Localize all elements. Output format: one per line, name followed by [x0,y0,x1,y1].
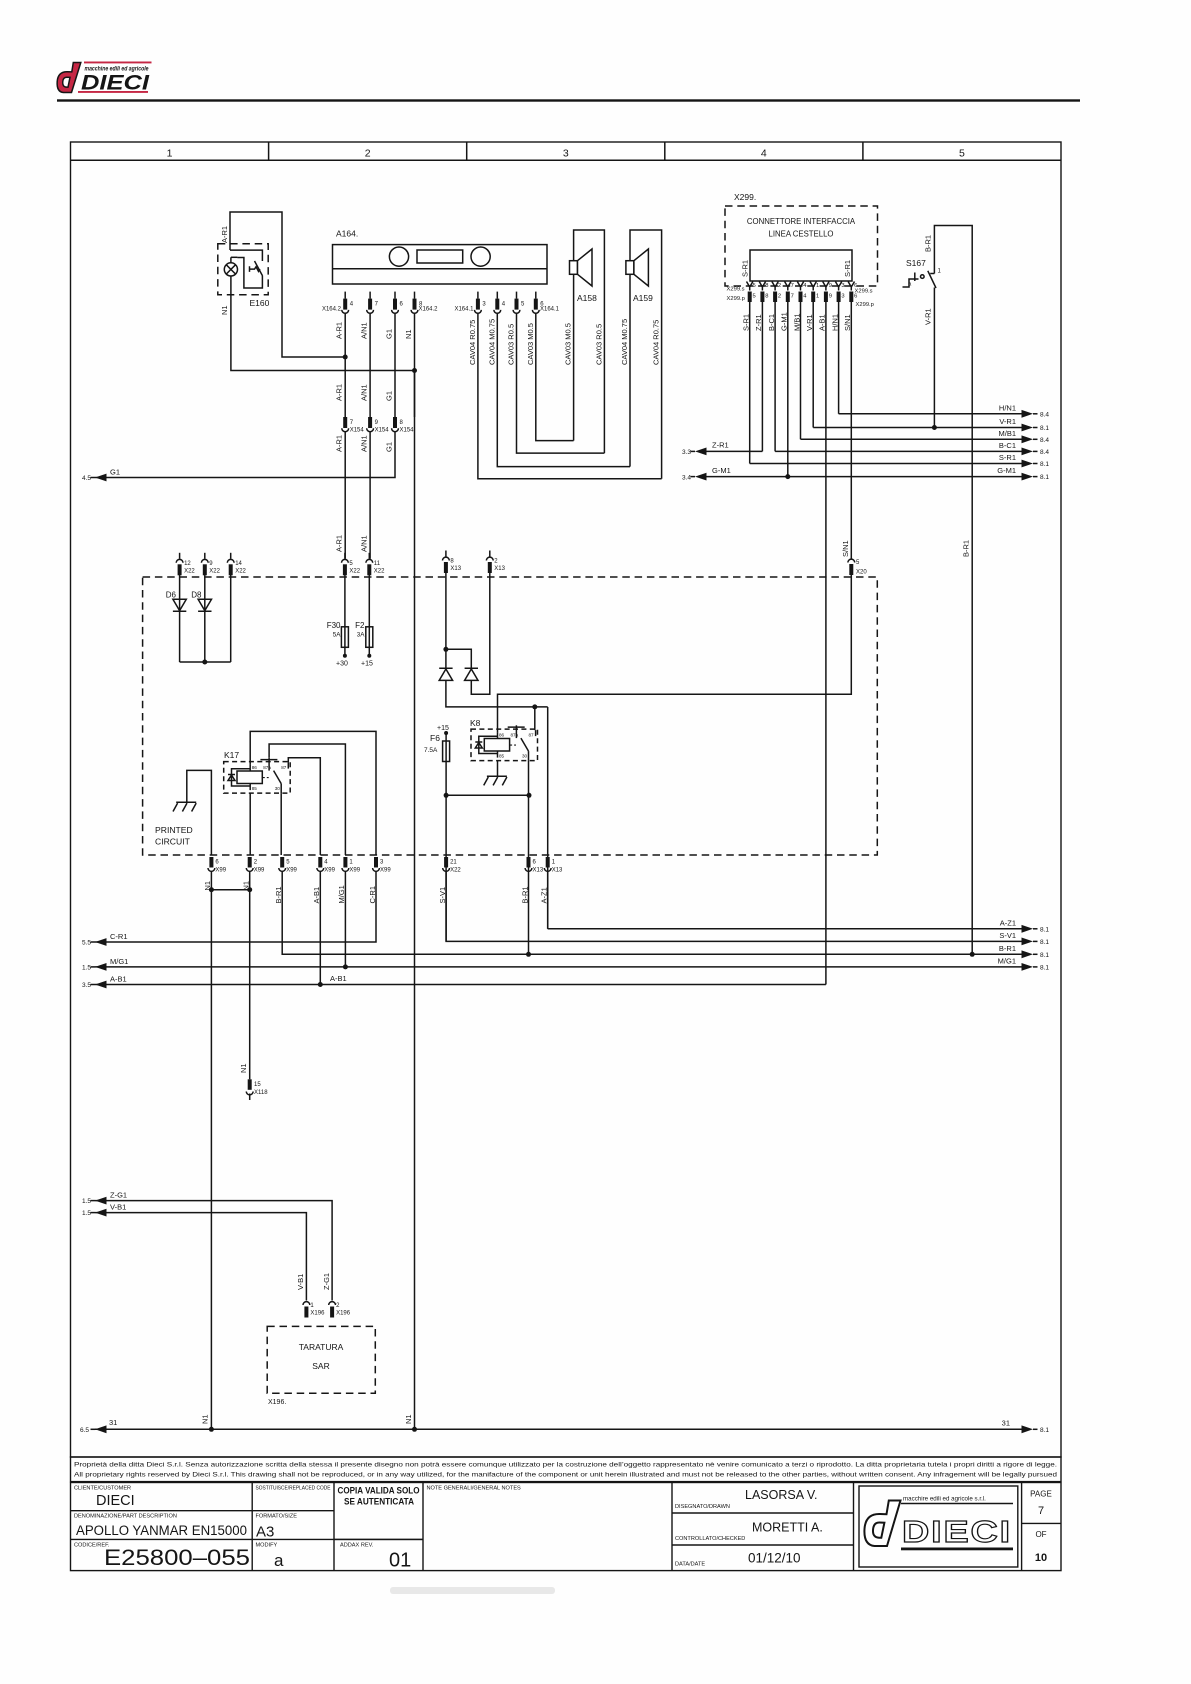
svg-text:S-R1: S-R1 [999,453,1016,462]
connector X99 pin 3 [374,857,378,868]
wire S-R1 row [750,463,1022,465]
svg-text:1: 1 [167,148,173,160]
svg-text:SOSTITUISCE/REPLACED CODE: SOSTITUISCE/REPLACED CODE [256,1486,331,1492]
svg-text:S-V1: S-V1 [999,931,1016,940]
svg-text:APOLLO YANMAR EN15000: APOLLO YANMAR EN15000 [76,1523,247,1538]
svg-text:2: 2 [778,283,781,289]
svg-text:X196.: X196. [268,1399,286,1406]
column header row [71,159,1062,161]
svg-text:a: a [909,282,912,288]
svg-text:Proprietà della ditta Dieci S.: Proprietà della ditta Dieci S.r.l. Senza… [74,1462,1057,1469]
wire B-R1 K8 30 down [528,761,530,955]
svg-text:V-R1: V-R1 [999,417,1016,426]
connector X299.p pin 4 [799,292,803,303]
svg-text:CLIENTE/CUSTOMER: CLIENTE/CUSTOMER [74,1486,131,1492]
svg-text:8.1: 8.1 [1040,474,1049,481]
svg-text:S-R1: S-R1 [741,260,750,277]
svg-text:A-R1: A-R1 [335,435,344,452]
svg-text:A159: A159 [633,293,653,303]
svg-text:V-B1: V-B1 [296,1274,305,1290]
svg-text:15: 15 [254,1082,261,1088]
svg-text:30: 30 [275,786,281,791]
svg-text:X154: X154 [375,428,390,434]
svg-text:LASORSA V.: LASORSA V. [745,1488,818,1502]
wire H/N1 row [839,413,1022,415]
connector X99 pin 6 [209,857,213,868]
svg-text:Z-R1: Z-R1 [712,441,729,450]
svg-text:9: 9 [829,283,832,289]
wire N1 from E160 [231,276,415,371]
wire S/N1 to K8 coil [498,574,852,733]
wire pin14 and join rail [230,573,232,662]
connector X22 pin 14 [230,553,232,559]
wire H/N1 from X299.p [838,302,840,414]
wires below X99 [210,872,212,1430]
svg-text:CONTROLLATO/CHECKED: CONTROLLATO/CHECKED [675,1536,745,1542]
svg-text:X22: X22 [450,868,461,874]
wire F6 to B-R1 [446,794,529,796]
svg-text:5: 5 [753,294,756,300]
svg-text:X154: X154 [350,428,365,434]
svg-text:CAV03 M0.5: CAV03 M0.5 [564,323,573,365]
svg-text:8.1: 8.1 [1040,461,1049,468]
svg-text:MORETTI A.: MORETTI A. [752,1521,823,1535]
connector X299.s socket 1 [810,282,816,291]
svg-text:CIRCUIT: CIRCUIT [155,837,191,847]
svg-text:31: 31 [1002,1419,1010,1428]
svg-text:Z-G1: Z-G1 [110,1191,127,1200]
connector X22 pin 9 [204,553,206,559]
svg-text:3A: 3A [357,632,366,639]
svg-text:X99: X99 [349,868,360,874]
svg-text:A164.: A164. [336,229,358,239]
svg-text:3: 3 [841,294,844,300]
connector X299.p pin 6 [849,292,853,303]
svg-text:3.3: 3.3 [682,449,691,456]
svg-text:X164.2: X164.2 [419,307,439,313]
wire N1 long vertical [414,371,416,1430]
svg-text:7.5A: 7.5A [424,747,438,754]
svg-text:D8: D8 [191,591,202,600]
svg-text:4: 4 [761,148,767,160]
connector X13 pin 6 [527,857,531,868]
svg-text:5.5: 5.5 [82,940,91,947]
connector X164.1 pin 6 [532,292,539,314]
svg-text:COPIA VALIDA SOLO: COPIA VALIDA SOLO [338,1486,420,1496]
svg-text:H/N1: H/N1 [999,403,1016,412]
svg-text:14: 14 [235,561,242,567]
connector X99 pin 5 [280,857,284,868]
svg-text:X22: X22 [235,568,246,574]
svg-text:K8: K8 [470,718,481,728]
wire G1 to left frame entry [95,432,395,478]
svg-text:8.1: 8.1 [1040,939,1049,946]
svg-text:A/N1: A/N1 [359,535,368,552]
svg-text:86: 86 [499,732,505,737]
svg-text:F2: F2 [355,621,365,630]
svg-text:85: 85 [252,786,258,791]
svg-text:K17: K17 [224,750,239,760]
wire Z-G1 [95,1201,332,1301]
switch inside E160 [230,250,262,261]
svg-text:G-M1: G-M1 [997,466,1016,475]
svg-text:9: 9 [829,294,832,300]
svg-text:X13: X13 [533,868,544,874]
lamp symbol E160 [224,263,237,276]
svg-text:CAV04 M0.75: CAV04 M0.75 [620,319,629,365]
connector X13 pin 2 [489,551,491,557]
svg-text:N1: N1 [239,1063,248,1073]
svg-text:X22: X22 [349,568,360,574]
svg-text:3.4: 3.4 [682,475,691,482]
svg-text:31: 31 [109,1418,117,1427]
svg-text:TARATURA: TARATURA [299,1342,344,1352]
svg-text:B-R1: B-R1 [924,235,933,252]
svg-text:10: 10 [1035,1552,1047,1564]
svg-text:M/B1: M/B1 [998,429,1016,438]
svg-text:21: 21 [450,860,457,866]
wire V-R1 from X299.p [812,302,814,428]
svg-text:+15: +15 [437,725,449,732]
svg-text:FORMATO/SIZE: FORMATO/SIZE [256,1514,298,1520]
svg-text:8.4: 8.4 [1040,437,1049,444]
wire diode2 to pin 2 X13 [471,571,490,695]
svg-text:1.5: 1.5 [82,1198,91,1205]
svg-text:X22: X22 [374,568,385,574]
wire diode1 bottom to K8 87 and A-Z1 drop [446,680,548,707]
svg-text:F6: F6 [430,733,440,743]
connector X99 pin 4 [318,857,322,868]
svg-text:A-R1: A-R1 [220,226,229,243]
svg-text:NOTE GENERALI/GENERAL NOTES: NOTE GENERALI/GENERAL NOTES [427,1486,522,1492]
wires below X154 [344,432,346,559]
svg-text:E160: E160 [250,298,270,308]
svg-text:A-R1: A-R1 [335,384,344,401]
connector X13 pin 1 [546,857,550,868]
svg-text:SE AUTENTICATA: SE AUTENTICATA [344,1497,414,1507]
svg-text:G1: G1 [384,442,393,452]
top rule [57,99,1080,101]
svg-text:X20: X20 [856,570,867,576]
svg-text:X99: X99 [286,868,297,874]
svg-text:X13: X13 [450,566,461,572]
ground in printed circuit [187,770,212,855]
connector X164.1 pin 5 [513,292,520,314]
connector X196 pins 1,2 [303,1302,310,1305]
svg-text:A/N1: A/N1 [359,435,368,452]
svg-text:G1: G1 [110,468,120,477]
svg-text:+30: +30 [336,661,348,668]
svg-text:S167: S167 [906,258,926,268]
connector X299.p pin 1 [811,292,815,303]
connector X299.s socket 3 [835,282,841,291]
svg-text:PAGE: PAGE [1030,1490,1052,1499]
svg-text:macchire edili ed agricole: macchire edili ed agricole s.r.l. [903,1496,986,1503]
svg-text:All proprietary rights reserve: All proprietary rights reserved by Dieci… [74,1472,1057,1479]
svg-text:DIECI: DIECI [81,72,150,95]
connector X299.p pin 7 [786,292,790,303]
svg-text:DENOMINAZIONE/PART DESCRIPTIO: DENOMINAZIONE/PART DESCRIPTION [74,1514,177,1520]
speaker A159 [630,230,662,479]
svg-text:S-R1: S-R1 [843,260,852,277]
svg-text:X22: X22 [209,568,220,574]
copyright strip [71,1457,1062,1482]
svg-text:N1: N1 [404,1414,413,1424]
svg-text:B-R1: B-R1 [962,540,971,557]
svg-text:DATA/DATE: DATA/DATE [675,1562,705,1568]
svg-text:3.5: 3.5 [82,982,91,989]
svg-text:8.1: 8.1 [1040,926,1049,933]
svg-text:3: 3 [841,283,844,289]
svg-text:DIECI: DIECI [96,1493,135,1509]
svg-text:CAV04 M0.75: CAV04 M0.75 [487,319,496,365]
connector X299.s socket 2 [772,282,778,291]
svg-text:A-Z1: A-Z1 [1000,918,1016,927]
svg-text:5: 5 [753,283,756,289]
svg-text:V-R1: V-R1 [924,308,933,325]
wire CAV03 M0.5 speaker feed [536,314,574,441]
svg-text:+15: +15 [361,661,373,668]
wire M/G1 row [95,966,1022,968]
connector X299.s socket 5 [747,282,753,291]
svg-text:MODIFY: MODIFY [256,1543,278,1549]
svg-text:E25800–055: E25800–055 [104,1545,250,1570]
connector X299.p pin 3 [837,292,841,303]
svg-text:CAV03 R0.5: CAV03 R0.5 [594,324,603,365]
connector X299.s socket 8 [759,282,765,291]
speaker A158 [574,230,605,453]
svg-text:CAV04 R0.75: CAV04 R0.75 [468,320,477,365]
svg-text:01: 01 [389,1550,411,1572]
svg-text:DIECI: DIECI [902,1514,1012,1549]
K17 wiring to X99 [250,731,376,855]
svg-text:V-B1: V-B1 [110,1203,126,1212]
svg-text:A158: A158 [577,293,597,303]
connector X13 pin 8 [445,551,447,557]
svg-text:7: 7 [1038,1505,1044,1517]
wire V-R1 row [813,427,1022,429]
svg-text:CAV03 R0.5: CAV03 R0.5 [507,324,516,365]
connector X299.p pin 8 [760,292,764,303]
svg-text:11: 11 [374,561,381,567]
connector X299.p pin 9 [824,292,828,303]
svg-text:2: 2 [778,294,781,300]
wire CAV03 R0.5 speaker feed [517,314,605,454]
svg-text:Z-G1: Z-G1 [322,1273,331,1290]
svg-text:2: 2 [365,148,371,160]
DIECI logo in title block [859,1486,1018,1567]
svg-text:01/12/10: 01/12/10 [748,1551,801,1566]
svg-text:A/N1: A/N1 [359,384,368,401]
svg-text:8.4: 8.4 [1040,411,1049,418]
connector X164.1 pin 3 [475,292,482,314]
svg-text:87a: 87a [511,732,519,737]
svg-text:3: 3 [563,148,569,160]
drawing frame [71,142,1062,1457]
wire 31/N1 bottom rail [95,1428,1022,1430]
svg-text:A-B1: A-B1 [110,975,127,984]
svg-text:M/G1: M/G1 [998,956,1016,965]
box TARATURA SAR [267,1326,375,1393]
svg-text:C-R1: C-R1 [110,932,128,941]
connector X99 pin 1 [343,857,347,868]
svg-text:X164.1: X164.1 [454,307,474,313]
svg-text:8: 8 [765,294,768,300]
connector X22 pin 21 [444,857,448,868]
svg-text:1.5: 1.5 [82,1210,91,1217]
wires A-R1 A/N1 G1 N1 below X164.2 [344,314,346,418]
svg-text:30: 30 [522,753,528,758]
svg-text:N1: N1 [201,1414,210,1424]
svg-text:DISEGNATO/DRAWN: DISEGNATO/DRAWN [675,1504,730,1510]
svg-text:ADDAX REV.: ADDAX REV. [340,1543,374,1549]
svg-text:X299.s: X299.s [727,287,745,293]
svg-text:8.1: 8.1 [1040,964,1049,971]
svg-text:X99: X99 [324,868,335,874]
svg-text:A-R1: A-R1 [335,535,344,552]
svg-text:a: a [274,1551,284,1570]
svg-text:X118: X118 [254,1090,268,1096]
wire M/B1 row [801,438,1023,440]
svg-text:M/G1: M/G1 [110,957,128,966]
svg-text:X13: X13 [552,868,563,874]
wire CAV04 R0.75 speaker feed [478,314,662,479]
svg-text:X99: X99 [254,868,265,874]
connector X164.1 pin 4 [494,292,501,314]
svg-text:1: 1 [816,294,819,300]
svg-text:B-C1: B-C1 [999,441,1016,450]
svg-text:OF: OF [1035,1530,1046,1539]
connector X22 pin 12 [179,553,181,559]
wire A-R1 E160 loop [230,212,345,357]
K8 ground [497,761,499,777]
svg-text:5A: 5A [333,632,342,639]
wire B-C1 row [775,450,1022,452]
wire V-B1 [95,1213,306,1301]
wire B-C1 from X299.p [774,302,776,451]
svg-text:SAR: SAR [312,1361,329,1371]
connector X22 pins 5,11 fuse feeds [344,553,346,559]
wire S-R1 from X299.p [749,302,751,464]
wire M/B1 from X299.p [800,302,802,439]
svg-text:8.1: 8.1 [1040,425,1049,432]
svg-text:D6: D6 [166,591,177,600]
svg-text:X299.p: X299.p [856,302,874,308]
svg-text:7: 7 [791,283,794,289]
svg-text:PRINTED: PRINTED [155,825,193,835]
svg-text:A3: A3 [256,1524,274,1541]
svg-text:X196: X196 [336,1311,351,1317]
wire S-V1 down [445,795,447,941]
svg-text:X13: X13 [494,566,505,572]
svg-text:G1: G1 [384,391,393,401]
svg-text:7: 7 [791,294,794,300]
svg-text:X164.2: X164.2 [322,307,342,313]
svg-text:1.5: 1.5 [82,964,91,971]
connector X299.s socket 7 [785,282,791,291]
svg-text:X164.1: X164.1 [540,307,560,313]
svg-text:8.1: 8.1 [1040,952,1049,959]
svg-text:B-R1: B-R1 [520,886,529,903]
svg-text:X299.p: X299.p [727,296,745,302]
svg-text:6: 6 [854,294,857,300]
svg-text:X299.: X299. [734,192,756,202]
svg-text:N1: N1 [404,329,413,339]
svg-text:X22: X22 [184,568,195,574]
svg-text:8: 8 [765,283,768,289]
svg-text:X99: X99 [380,868,391,874]
svg-text:6.5: 6.5 [80,1427,89,1434]
svg-text:S/N1: S/N1 [841,540,850,557]
connector X99 pin 2 [248,857,252,868]
svg-text:X196: X196 [310,1311,325,1317]
svg-text:87: 87 [529,732,535,737]
wire G-M1 from X299.p [787,302,789,477]
svg-text:85: 85 [499,753,505,758]
svg-text:A-B1: A-B1 [330,974,347,983]
svg-text:X154: X154 [400,428,415,434]
svg-text:CONNETTORE INTERFACCIA: CONNETTORE INTERFACCIA [747,217,856,226]
svg-text:5: 5 [959,148,965,160]
connector X299.p pin 2 [773,292,777,303]
svg-text:4.5: 4.5 [82,475,91,482]
lamp E160 dashed box [218,244,268,295]
connector X299.p pin 5 [748,292,752,303]
DIECI company logo top-left [57,62,151,95]
svg-text:F30: F30 [327,621,341,630]
svg-text:8.4: 8.4 [1040,449,1049,456]
svg-text:CAV04 R0.75: CAV04 R0.75 [652,320,661,365]
svg-text:CAV03 M0.5: CAV03 M0.5 [526,323,535,365]
connector X154 pin 7 [343,417,347,428]
svg-text:B-R1: B-R1 [999,944,1016,953]
connector X299.s socket 6 [848,282,854,291]
connector X299.s socket 4 [797,282,803,291]
wire CAV04 M0.75 speaker feed [497,314,630,467]
connector X154 pin 9 [368,417,372,428]
svg-text:87a: 87a [263,765,271,770]
connector X299.s socket 9 [823,282,829,291]
svg-text:87: 87 [281,765,287,770]
svg-text:12: 12 [184,561,191,567]
diode pair near K8 [445,571,447,669]
svg-text:A/N1: A/N1 [359,322,368,339]
svg-text:8.1: 8.1 [1040,1427,1049,1434]
wire A-B1 row [95,984,826,986]
S167 actuator [903,273,935,288]
svg-text:1: 1 [816,283,819,289]
svg-text:N1: N1 [220,305,229,315]
svg-text:86: 86 [252,765,258,770]
wire Z-R1 from X299.p [761,302,763,451]
svg-text:X99: X99 [215,868,226,874]
connector X154 pin 8 [393,417,397,428]
svg-text:G-M1: G-M1 [712,466,731,475]
svg-text:G1: G1 [384,329,393,339]
svg-text:LINEA CESTELLO: LINEA CESTELLO [768,230,833,239]
title block [71,1483,1062,1571]
svg-text:A-R1: A-R1 [335,322,344,339]
printed circuit dashed box [143,577,878,855]
